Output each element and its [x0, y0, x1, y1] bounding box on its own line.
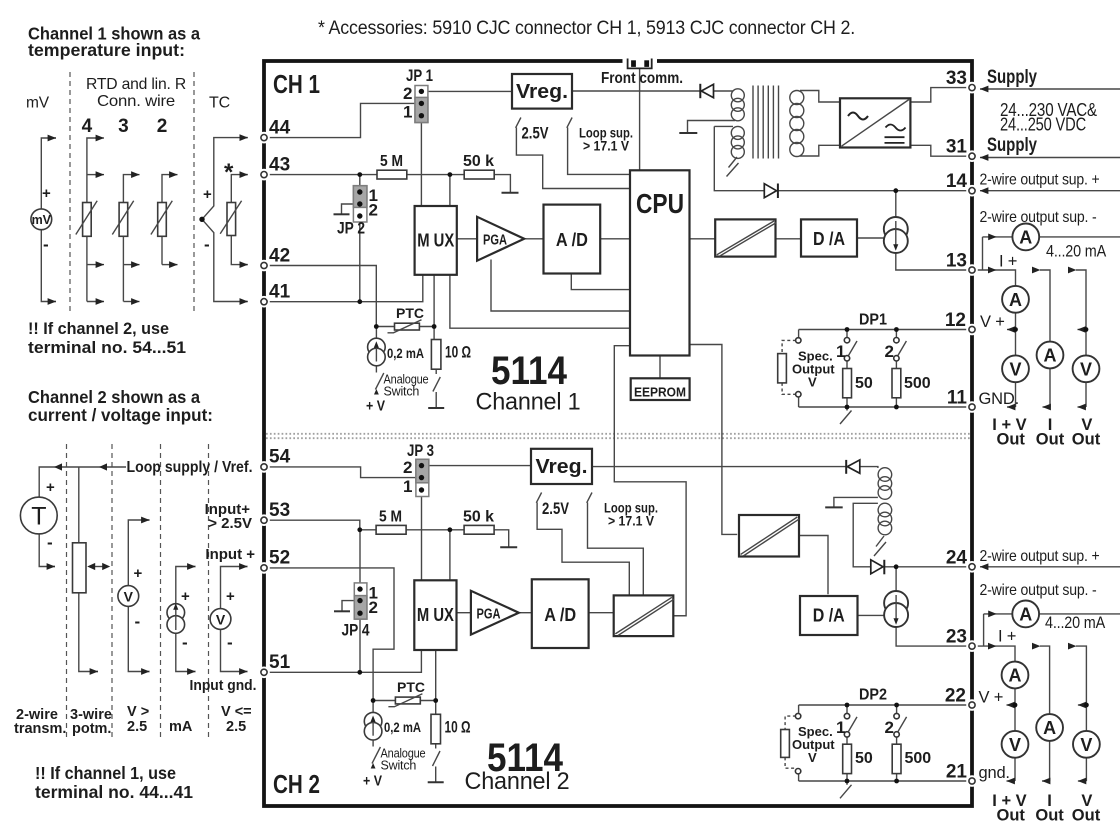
svg-text:V: V: [124, 589, 134, 605]
svg-text:EEPROM: EEPROM: [634, 386, 686, 400]
svg-text:5 M: 5 M: [379, 509, 402, 526]
svg-text:A: A: [1044, 346, 1057, 366]
svg-text:33: 33: [946, 68, 967, 89]
svg-text:12: 12: [945, 310, 966, 331]
svg-text:1: 1: [836, 342, 845, 361]
svg-text:mV: mV: [32, 213, 52, 227]
svg-text:Input +: Input +: [205, 546, 255, 563]
svg-text:10 Ω: 10 Ω: [445, 344, 471, 362]
svg-text:> 2.5V: > 2.5V: [208, 515, 252, 532]
svg-text:V <=: V <=: [221, 704, 252, 720]
svg-text:10 Ω: 10 Ω: [445, 719, 471, 737]
svg-text:24: 24: [946, 547, 968, 568]
svg-text:2: 2: [885, 342, 894, 361]
svg-text:DP2: DP2: [859, 687, 887, 704]
svg-text:CH 2: CH 2: [273, 769, 320, 799]
svg-text:Input gnd.: Input gnd.: [190, 677, 257, 694]
svg-text:* Accessories: 5910 CJC connec: * Accessories: 5910 CJC connector CH 1, …: [318, 17, 855, 39]
svg-text:temperature input:: temperature input:: [28, 40, 185, 60]
svg-text:V: V: [1080, 735, 1092, 755]
svg-text:-: -: [43, 235, 49, 254]
svg-text:Out: Out: [1035, 807, 1064, 825]
svg-text:Supply: Supply: [987, 67, 1037, 88]
svg-text:5114: 5114: [491, 349, 568, 393]
svg-text:V: V: [808, 750, 817, 765]
svg-text:-: -: [135, 612, 141, 631]
svg-text:4: 4: [82, 116, 93, 137]
svg-text:transm.: transm.: [14, 721, 66, 737]
svg-text:V: V: [1009, 735, 1021, 755]
svg-text:Front comm.: Front comm.: [601, 70, 683, 87]
svg-text:2.5: 2.5: [226, 719, 246, 735]
svg-text:D /A: D /A: [813, 229, 845, 249]
svg-text:-: -: [227, 633, 233, 652]
svg-text:41: 41: [269, 282, 291, 303]
svg-text:500: 500: [904, 375, 931, 392]
svg-text:2: 2: [157, 116, 168, 137]
svg-text:> 17.1 V: > 17.1 V: [608, 513, 655, 529]
svg-text:50 k: 50 k: [463, 509, 494, 526]
svg-text:A: A: [1019, 604, 1032, 624]
svg-text:V >: V >: [127, 704, 149, 720]
svg-text:A: A: [1019, 227, 1032, 247]
svg-text:JP 4: JP 4: [342, 621, 370, 640]
svg-text:mV: mV: [26, 95, 50, 112]
svg-text:2: 2: [885, 718, 894, 737]
svg-text:potm.: potm.: [72, 721, 111, 737]
svg-text:13: 13: [946, 251, 967, 272]
svg-text:gnd.: gnd.: [979, 764, 1010, 782]
svg-text:Out: Out: [1036, 431, 1065, 449]
svg-text:11: 11: [947, 388, 968, 409]
svg-text:1: 1: [836, 718, 845, 737]
svg-text:Supply: Supply: [987, 135, 1037, 156]
svg-text:PTC: PTC: [396, 305, 424, 321]
svg-text:CPU: CPU: [636, 188, 684, 219]
svg-text:I +: I +: [999, 253, 1017, 271]
svg-text:T: T: [31, 503, 46, 531]
svg-text:D /A: D /A: [813, 606, 845, 626]
svg-text:-: -: [182, 633, 188, 652]
svg-text:2-wire output sup. +: 2-wire output sup. +: [980, 548, 1100, 565]
svg-text:2.5V: 2.5V: [522, 125, 549, 143]
svg-text:2.5: 2.5: [127, 719, 147, 735]
svg-text:21: 21: [946, 762, 968, 783]
svg-text:PGA: PGA: [483, 233, 507, 249]
svg-text:M UX: M UX: [417, 605, 454, 625]
svg-text:PGA: PGA: [477, 607, 501, 623]
svg-text:5 M: 5 M: [380, 153, 403, 170]
svg-text:50: 50: [855, 375, 873, 392]
svg-text:3: 3: [118, 116, 129, 137]
svg-text:+ V: + V: [363, 774, 382, 790]
svg-text:Out: Out: [1072, 807, 1101, 825]
svg-text:> 17.1 V: > 17.1 V: [583, 138, 630, 154]
svg-text:V: V: [216, 612, 226, 628]
svg-text:Loop supply / Vref.: Loop supply / Vref.: [127, 459, 253, 476]
svg-text:V: V: [1009, 359, 1021, 379]
svg-text:2.5V: 2.5V: [542, 500, 569, 518]
svg-text:Vreg.: Vreg.: [536, 456, 588, 478]
svg-text:500: 500: [905, 750, 932, 767]
svg-text:-: -: [47, 533, 53, 552]
svg-text:V: V: [808, 375, 817, 390]
svg-text:Conn. wire: Conn. wire: [97, 93, 175, 110]
svg-text:TC: TC: [209, 95, 230, 112]
svg-text:RTD and lin. R: RTD and lin. R: [86, 76, 186, 93]
svg-text:JP 1: JP 1: [406, 66, 433, 85]
svg-text:2: 2: [369, 201, 378, 220]
svg-text:PTC: PTC: [397, 679, 425, 695]
svg-text:!! If channel 2, use: !! If channel 2, use: [28, 319, 169, 338]
svg-text:V +: V +: [979, 689, 1004, 707]
svg-text:54: 54: [269, 447, 291, 468]
svg-text:M UX: M UX: [417, 231, 454, 251]
svg-text:Out: Out: [996, 807, 1025, 825]
svg-text:+: +: [46, 479, 55, 496]
svg-text:0,2 mA: 0,2 mA: [384, 720, 421, 735]
svg-text:51: 51: [269, 652, 291, 673]
svg-text:42: 42: [269, 245, 290, 266]
svg-text:1: 1: [403, 103, 412, 122]
svg-text:Channel 2: Channel 2: [465, 768, 570, 795]
svg-text:0,2 mA: 0,2 mA: [387, 346, 424, 361]
svg-text:2: 2: [403, 458, 412, 477]
svg-text:Vreg.: Vreg.: [516, 81, 568, 103]
svg-text:44: 44: [269, 117, 291, 138]
svg-text:23: 23: [946, 627, 967, 648]
svg-text:43: 43: [269, 154, 290, 175]
svg-text:Channel 2 shown as a: Channel 2 shown as a: [28, 387, 200, 407]
svg-text:mA: mA: [169, 719, 193, 735]
svg-text:24...250 VDC: 24...250 VDC: [1000, 115, 1086, 135]
svg-text:+: +: [203, 186, 212, 203]
svg-text:+: +: [134, 565, 143, 582]
svg-text:4...20 mA: 4...20 mA: [1046, 243, 1106, 261]
svg-text:Switch: Switch: [381, 759, 417, 773]
svg-text:A /D: A /D: [544, 605, 576, 625]
svg-text:I +: I +: [998, 628, 1016, 646]
svg-text:50 k: 50 k: [463, 153, 494, 170]
svg-text:A /D: A /D: [556, 230, 588, 250]
svg-text:2-wire output sup. -: 2-wire output sup. -: [980, 582, 1097, 599]
svg-text:A: A: [1009, 290, 1022, 310]
svg-text:14: 14: [946, 171, 968, 192]
svg-text:A: A: [1043, 718, 1056, 738]
svg-text:53: 53: [269, 500, 290, 521]
svg-text:1: 1: [403, 477, 412, 496]
svg-text:CH 1: CH 1: [273, 69, 320, 99]
svg-text:22: 22: [945, 686, 966, 707]
svg-text:50: 50: [855, 750, 873, 767]
svg-text:A: A: [1009, 666, 1022, 686]
svg-text:Out: Out: [1072, 431, 1101, 449]
svg-text:-: -: [204, 235, 210, 254]
svg-text:4...20 mA: 4...20 mA: [1045, 614, 1105, 632]
svg-text:+ V: + V: [366, 399, 385, 415]
svg-text:!! If channel 1, use: !! If channel 1, use: [35, 763, 176, 783]
svg-text:2: 2: [403, 84, 412, 103]
svg-text:GND.: GND.: [979, 390, 1019, 408]
svg-text:V: V: [1080, 359, 1092, 379]
svg-text:Out: Out: [996, 431, 1025, 449]
svg-text:current / voltage input:: current / voltage input:: [28, 405, 213, 425]
svg-text:Channel 1: Channel 1: [476, 389, 581, 416]
svg-text:terminal no. 44...41: terminal no. 44...41: [35, 782, 193, 802]
svg-text:DP1: DP1: [859, 312, 887, 329]
svg-text:+: +: [42, 185, 51, 202]
svg-text:2-wire output sup. -: 2-wire output sup. -: [980, 209, 1097, 226]
svg-text:2: 2: [369, 598, 378, 617]
svg-text:terminal no. 54...51: terminal no. 54...51: [28, 338, 186, 357]
svg-text:*: *: [224, 159, 234, 186]
svg-text:Switch: Switch: [384, 385, 420, 399]
svg-text:52: 52: [269, 548, 290, 569]
svg-text:V +: V +: [980, 313, 1005, 331]
svg-text:+: +: [226, 588, 235, 605]
svg-text:2-wire output sup. +: 2-wire output sup. +: [980, 172, 1100, 189]
svg-text:JP 2: JP 2: [337, 219, 365, 238]
svg-text:+: +: [181, 588, 190, 605]
svg-text:31: 31: [946, 137, 968, 158]
